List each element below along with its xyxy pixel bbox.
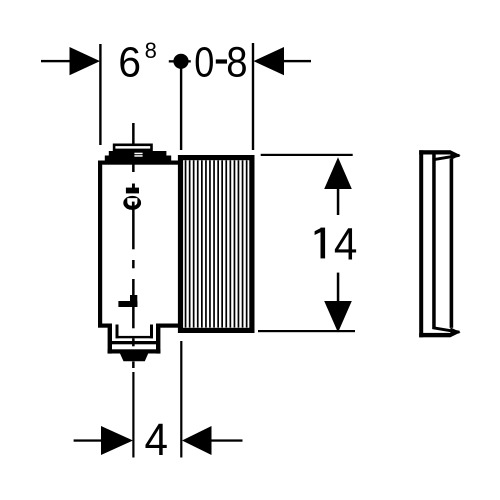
wire bottom dimension tail left (74, 439, 102, 441)
svg-text:8: 8 (226, 39, 247, 87)
seal block hatching (185, 160, 248, 327)
wire bottom dimension tail right (212, 439, 243, 441)
frame profile bottom bar (419, 333, 450, 337)
body housing rectangle (100, 163, 181, 326)
centre line segment below screw (132, 210, 135, 250)
screw ring body (123, 196, 141, 210)
cap step band upper (109, 151, 167, 156)
outlet sleeve bottom border (116, 336, 154, 338)
screw stub (132, 184, 135, 189)
outlet right wall (156, 324, 160, 354)
arrow 14 top shaft (337, 189, 340, 215)
screw ring cup opening (127, 198, 137, 206)
svg-text:4: 4 (334, 218, 358, 269)
cap step band lower (105, 156, 171, 161)
outlet sleeve left border (116, 325, 119, 339)
clip step mark vertical part (130, 295, 137, 307)
centre line segment above cap (132, 123, 135, 146)
outlet spigot trapezoid (120, 354, 148, 362)
extension line 4 left (centre) (132, 372, 134, 458)
value label hyphen (216, 59, 227, 63)
svg-text:0: 0 (194, 39, 214, 87)
frame profile top point (450, 150, 460, 160)
svg-text:8: 8 (145, 38, 157, 63)
wire from dot down to seal block (180, 68, 182, 150)
centre line dash in outlet (132, 338, 135, 346)
screw nut (126, 188, 139, 194)
seal block outline (181, 158, 252, 331)
extension line left (body left edge) (99, 44, 101, 145)
arrow 14 top pointing up (324, 157, 352, 189)
arrow 14 bottom pointing down (324, 301, 352, 333)
centre line segment below top edge (132, 164, 135, 172)
screw ring inner stub (132, 202, 135, 209)
extension line 4 right (180, 341, 182, 458)
extension line right (seal right edge) (252, 43, 254, 150)
outlet step line (109, 341, 159, 344)
arrow 14 bottom shaft (337, 273, 340, 302)
outlet sleeve right border (150, 325, 153, 339)
wire top dimension tail right (284, 60, 311, 62)
extension line 14 top (261, 154, 353, 156)
centre line stub below outlet (132, 362, 135, 369)
svg-text:6: 6 (118, 39, 141, 87)
centre line segment through clip (132, 279, 135, 328)
opening in body bottom edge for outlet (112, 322, 156, 328)
value label 1 of 14 (drawn) (321, 228, 326, 259)
frame profile top bar (419, 150, 450, 154)
centre line short dash (132, 260, 135, 268)
arrow top-right pointing left (254, 47, 285, 75)
cap top plate outline (114, 145, 151, 150)
wire top dimension tail left (41, 60, 70, 62)
node dot on dimension line (173, 54, 188, 69)
frame profile bottom flange topside (433, 328, 460, 333)
arrow top-left pointing right (70, 47, 101, 75)
frame profile bottom point (450, 327, 460, 337)
clip step mark horizontal part (118, 301, 137, 307)
svg-text:4: 4 (145, 414, 169, 465)
arrow bottom-left pointing right (101, 426, 133, 455)
frame profile inner line (432, 154, 436, 328)
frame profile right wall (450, 159, 454, 328)
arrow bottom-right pointing left (182, 426, 212, 455)
outlet left wall (108, 324, 112, 354)
extension line 14 bottom (258, 330, 355, 332)
wire tick through dot (169, 60, 191, 62)
frame profile top flange underside (433, 155, 460, 160)
outlet bottom bar (108, 349, 161, 353)
cap notch mark (134, 153, 142, 155)
frame profile left wall (419, 150, 423, 337)
